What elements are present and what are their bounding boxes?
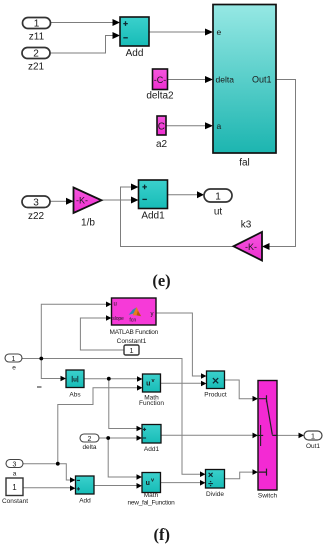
svg-text:3: 3 <box>33 197 39 208</box>
divide block <box>206 470 225 498</box>
wire delta branch to new_fal top <box>108 438 142 480</box>
svg-text:u: u <box>73 377 77 384</box>
wire Add to fal port e <box>149 29 213 36</box>
wire z22 to gain 1/b <box>51 198 74 205</box>
svg-text:Function: Function <box>139 400 164 407</box>
svg-text:3: 3 <box>13 462 17 469</box>
junction delta <box>106 436 110 440</box>
wire MATLAB y to Product top <box>156 313 207 379</box>
junction e <box>39 357 43 361</box>
svg-text:1: 1 <box>12 356 16 363</box>
wire Product to Switch port1 <box>225 380 259 402</box>
svg-text:e: e <box>217 27 222 37</box>
subsystem fal <box>213 5 276 169</box>
wire Switch to Out1 <box>277 433 304 439</box>
svg-text:e: e <box>12 365 16 372</box>
abs block Abs <box>66 370 84 399</box>
wire e branch to MATLAB u <box>41 302 111 359</box>
svg-text:2: 2 <box>88 436 92 443</box>
svg-text:y: y <box>151 311 154 317</box>
svg-text:new_fal_Function: new_fal_Function <box>128 499 176 506</box>
svg-text:delta: delta <box>82 444 96 451</box>
svg-text:Add: Add <box>126 48 144 59</box>
svg-text:a2: a2 <box>156 139 168 150</box>
svg-text:Constant1: Constant1 <box>117 338 147 345</box>
svg-text:C: C <box>158 122 165 133</box>
svg-text:u: u <box>146 480 150 487</box>
gain k3 <box>234 220 263 261</box>
wire z21 to Add minus <box>51 32 121 53</box>
svg-text:(f): (f) <box>154 525 170 544</box>
svg-text:Math: Math <box>144 492 159 499</box>
svg-text:u: u <box>146 381 150 388</box>
svg-text:1: 1 <box>12 483 17 492</box>
wire Add1 to Switch port2 <box>161 433 258 439</box>
inport 1 z11 <box>23 18 51 43</box>
product block <box>204 371 227 399</box>
svg-text:delta: delta <box>216 75 235 85</box>
svg-text:z11: z11 <box>29 32 45 43</box>
junction Abs output <box>107 377 111 381</box>
svg-text:Out1: Out1 <box>306 443 320 450</box>
sum block Add <box>120 17 149 59</box>
constant Constant1 <box>117 338 147 355</box>
wire a loop to Math Function bottom <box>58 385 143 464</box>
svg-text:-K-: -K- <box>245 242 257 252</box>
caption (e) <box>152 271 170 290</box>
svg-text:1: 1 <box>129 346 133 355</box>
svg-text:-C-: -C- <box>154 75 167 85</box>
inport 2 z21 <box>22 48 50 73</box>
inport 3 z22 <box>22 196 50 222</box>
svg-text:a: a <box>13 471 17 478</box>
svg-text:k3: k3 <box>241 220 252 231</box>
wire e to Divide top <box>22 359 206 478</box>
svg-text:z22: z22 <box>28 211 45 222</box>
svg-text:(e): (e) <box>152 271 170 290</box>
junction a <box>56 462 60 466</box>
svg-text:u: u <box>114 302 117 308</box>
sum block Add1 f <box>142 425 161 454</box>
svg-text:Product: Product <box>204 392 227 399</box>
wire gain 1/b to Add1 minus <box>102 197 139 204</box>
wire Add1 to outport ut <box>168 191 205 198</box>
wire Abs branch to Add1 plus <box>109 379 142 432</box>
wire e branch to Abs <box>41 359 66 382</box>
wire Constant1 to MATLAB slope <box>80 315 124 350</box>
svg-text:Switch: Switch <box>258 493 278 500</box>
constant a2 <box>156 116 168 150</box>
constant delta2 <box>146 69 174 102</box>
svg-text:1: 1 <box>215 192 221 203</box>
svg-text:Constant: Constant <box>2 498 28 505</box>
wire delta to Add1 minus <box>99 435 142 441</box>
inport 2 delta <box>80 434 99 451</box>
annotation minus <box>37 386 42 388</box>
sum block Add f <box>76 476 95 505</box>
svg-text:ut: ut <box>214 207 223 218</box>
svg-text:z21: z21 <box>28 62 45 73</box>
wire Divide to Switch port3 <box>225 469 259 479</box>
wire new_fal to Divide bottom <box>161 480 206 486</box>
svg-text:Out1: Out1 <box>252 75 272 85</box>
math function block new_fal <box>128 473 176 507</box>
svg-text:a: a <box>217 121 222 131</box>
svg-text:Add1: Add1 <box>144 446 160 453</box>
sum block Add1 <box>139 180 168 222</box>
svg-text:Divide: Divide <box>206 491 224 498</box>
wire Constant to Add bottom <box>23 485 76 491</box>
svg-text:Add: Add <box>79 498 91 505</box>
wire z11 to Add plus <box>51 19 120 26</box>
svg-text:fcn: fcn <box>129 317 136 323</box>
inport 3 a <box>6 460 23 478</box>
svg-text:-K-: -K- <box>76 196 88 206</box>
svg-text:delta2: delta2 <box>146 91 174 102</box>
wire fal Out1 to gain k3 <box>262 80 296 251</box>
outport 1 ut <box>204 189 232 218</box>
wire delta2 to fal port delta <box>168 76 214 83</box>
math function block <box>139 374 164 407</box>
svg-text:Abs: Abs <box>69 392 81 399</box>
svg-text:2: 2 <box>33 48 39 59</box>
svg-text:Add1: Add1 <box>141 211 165 222</box>
inport 1 e <box>5 354 22 372</box>
switch block <box>258 381 278 500</box>
gain 1/b <box>74 188 102 229</box>
svg-text:MATLAB Function: MATLAB Function <box>110 329 159 336</box>
constant Constant <box>2 478 28 505</box>
svg-text:1: 1 <box>311 432 315 441</box>
wire Abs to Math Function top <box>84 376 143 382</box>
svg-text:fal: fal <box>239 158 250 169</box>
svg-text:1: 1 <box>34 18 40 29</box>
wire a2 to fal port a <box>166 122 213 129</box>
MATLAB Function block <box>110 298 159 336</box>
outport 1 Out1 <box>304 431 322 450</box>
wire gain k3 to Add1 plus <box>121 184 234 247</box>
svg-text:slope: slope <box>112 316 124 322</box>
svg-text:1/b: 1/b <box>81 218 95 229</box>
caption (f) <box>154 525 170 544</box>
wire a to Add top <box>23 464 76 483</box>
wire Math Function to Product bottom <box>161 381 207 387</box>
wire Add to new_fal bottom <box>94 483 142 489</box>
